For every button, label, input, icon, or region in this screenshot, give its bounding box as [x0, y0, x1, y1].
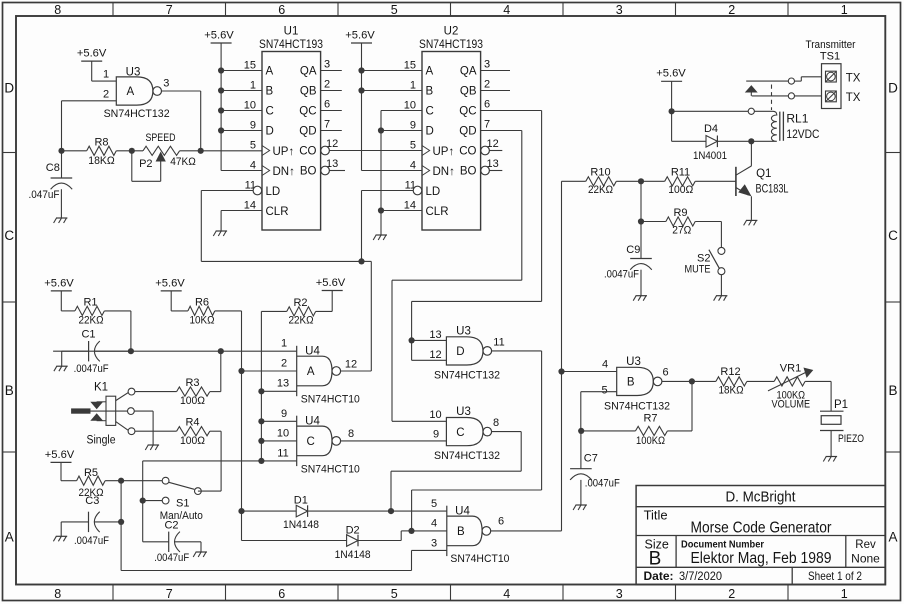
resistor R11 [665, 177, 696, 186]
svg-text:5: 5 [431, 498, 437, 510]
svg-text:15: 15 [404, 60, 416, 72]
svg-text:P2: P2 [139, 158, 152, 170]
svg-text:U4: U4 [305, 346, 320, 358]
svg-text:C8: C8 [46, 162, 60, 174]
svg-text:+5.6V: +5.6V [155, 277, 185, 289]
svg-text:CO: CO [299, 146, 316, 158]
resistor R1 [60, 291, 62, 311]
svg-text:10KΩ: 10KΩ [190, 315, 215, 327]
svg-text:7: 7 [166, 587, 173, 601]
svg-text:A: A [266, 66, 274, 78]
svg-text:VR1: VR1 [780, 363, 801, 375]
wire U3B output [662, 380, 716, 382]
svg-text:8: 8 [54, 587, 61, 601]
svg-text:TS1: TS1 [820, 51, 840, 63]
ground P1 [826, 456, 837, 458]
node dot relay common [669, 108, 675, 114]
svg-text:U3: U3 [626, 356, 641, 368]
svg-text:.0047uF: .0047uF [604, 269, 639, 281]
svg-text:4: 4 [503, 587, 510, 601]
svg-text:1N4148: 1N4148 [283, 519, 319, 531]
svg-text:R8: R8 [94, 137, 108, 149]
svg-text:C1: C1 [81, 328, 95, 340]
nand gate U3 C [446, 418, 483, 446]
U1 output stubs QA-QD [321, 70, 342, 72]
svg-text:4: 4 [250, 160, 256, 172]
svg-text:B: B [649, 549, 662, 570]
wire C3 node to U4B pin3 (bottom route) [120, 522, 122, 571]
wire output pin3 U3A [162, 90, 201, 92]
svg-text:12VDC: 12VDC [786, 127, 819, 141]
svg-text:R5: R5 [84, 467, 98, 479]
svg-text:DN↑: DN↑ [433, 166, 455, 178]
svg-text:+5.6V: +5.6V [204, 29, 234, 41]
svg-text:SN74HCT132: SN74HCT132 [434, 370, 500, 382]
wire R10 node down to R9/C9 [640, 181, 642, 258]
U2 clock wedges [422, 146, 430, 156]
svg-text:6: 6 [278, 3, 285, 17]
svg-text:Elektor Mag, Feb 1989: Elektor Mag, Feb 1989 [691, 550, 832, 567]
svg-text:R3: R3 [185, 377, 199, 389]
svg-text:U3: U3 [456, 326, 471, 338]
svg-text:LD: LD [426, 186, 441, 198]
svg-text:9: 9 [250, 120, 256, 132]
svg-text:R12: R12 [720, 366, 740, 378]
wire U3C pin10 from QD [392, 420, 446, 422]
svg-text:27Ω: 27Ω [672, 225, 691, 237]
U1 CO bubble, wire to U2 UP [321, 146, 330, 155]
svg-text:1: 1 [281, 338, 287, 350]
svg-text:None: None [851, 552, 880, 566]
node dot R9 tap [638, 218, 644, 224]
svg-text:2: 2 [728, 587, 735, 601]
wire U3D inputs tie [412, 339, 447, 341]
wire relay common row [672, 110, 749, 112]
capacitor C9 [630, 258, 652, 260]
svg-text:S1: S1 [176, 498, 189, 510]
svg-text:B: B [266, 86, 274, 98]
svg-text:D: D [888, 81, 898, 96]
node dot P2 right / U1 UP [198, 148, 204, 154]
wire pin2 U3A [62, 100, 117, 102]
svg-text:4: 4 [602, 359, 608, 371]
wire U2 QD to U3C pin10 [481, 130, 522, 132]
resistor R10 [562, 180, 586, 182]
svg-text:.0047uF: .0047uF [154, 552, 189, 564]
svg-text:+5.6V: +5.6V [45, 449, 75, 461]
svg-text:1: 1 [410, 80, 416, 92]
svg-text:4: 4 [410, 160, 416, 172]
svg-text:7: 7 [166, 3, 173, 17]
svg-text:9: 9 [433, 429, 439, 441]
svg-text:C7: C7 [584, 453, 598, 465]
svg-text:1: 1 [103, 69, 109, 81]
nand gate U4 C [296, 416, 298, 466]
svg-text:C3: C3 [85, 495, 99, 507]
svg-text:22KΩ: 22KΩ [289, 315, 314, 327]
IC U2 SN74HCT193 box [422, 52, 481, 231]
svg-text:C: C [456, 427, 464, 439]
svg-text:D4: D4 [704, 123, 718, 135]
resistor R8 [62, 150, 87, 152]
svg-text:K1: K1 [94, 382, 108, 394]
svg-text:.047uF: .047uF [29, 189, 60, 201]
svg-text:U2: U2 [444, 26, 459, 38]
svg-text:Document Number: Document Number [681, 538, 764, 550]
svg-text:U4: U4 [305, 416, 320, 428]
node dot D1/U3C out [388, 508, 394, 514]
svg-text:4: 4 [431, 518, 437, 530]
node dot U3B out [689, 378, 695, 384]
switch S1 Man/Auto [162, 477, 169, 484]
svg-text:12: 12 [429, 349, 441, 361]
wire R6 bus down to D1/D2 [241, 311, 243, 541]
wire LD tie row to U4A output [201, 260, 361, 262]
svg-text:11: 11 [277, 448, 288, 460]
svg-text:100Ω: 100Ω [180, 435, 205, 447]
svg-text:D: D [456, 346, 464, 358]
svg-text:6: 6 [498, 516, 504, 528]
svg-text:RL1: RL1 [786, 112, 808, 126]
U1 supply rail and input stubs [220, 43, 222, 171]
capacitor C8 [58, 148, 64, 154]
node dot R7/C7 [578, 428, 584, 434]
relay contact throw 2 [752, 95, 789, 97]
svg-text:SN74HCT10: SN74HCT10 [450, 553, 509, 565]
wire U4C pin10 [261, 440, 296, 442]
svg-text:CLR: CLR [426, 206, 449, 218]
svg-text:3: 3 [616, 3, 623, 17]
svg-text:CLR: CLR [266, 206, 289, 218]
ground C1 [56, 365, 67, 367]
svg-text:6: 6 [324, 98, 330, 110]
svg-text:7: 7 [484, 118, 490, 130]
svg-text:18KΩ: 18KΩ [88, 155, 115, 167]
wire U4C output to U3C pin9 [341, 440, 447, 442]
svg-text:CO: CO [459, 146, 476, 158]
svg-text:R9: R9 [673, 207, 687, 219]
svg-text:5: 5 [410, 140, 416, 152]
wire node row to U4A pin1 [53, 350, 297, 352]
svg-text:UP↑: UP↑ [273, 146, 295, 158]
svg-text:U3: U3 [456, 406, 471, 418]
svg-text:14: 14 [404, 200, 416, 212]
svg-text:2: 2 [324, 78, 330, 90]
U2 supply rail, A B stubs, DN [361, 43, 363, 171]
svg-text:Q1: Q1 [756, 168, 771, 180]
svg-text:47KΩ: 47KΩ [170, 156, 196, 168]
node dot D1 anode [238, 508, 244, 514]
svg-text:Rev: Rev [855, 539, 876, 551]
svg-text:Morse Code Generator: Morse Code Generator [691, 520, 832, 537]
svg-text:BO: BO [300, 166, 317, 178]
resistor R6 [170, 291, 172, 311]
svg-text:B: B [627, 377, 635, 389]
resistor R3 [135, 391, 177, 393]
ground C7 [576, 504, 587, 506]
ground C8 [56, 217, 67, 219]
svg-text:PIEZO: PIEZO [838, 433, 864, 445]
node dot P2 left [129, 148, 135, 154]
svg-text:D2: D2 [346, 525, 360, 537]
wire U3C output to D1 node [492, 431, 522, 433]
svg-text:100Ω: 100Ω [668, 184, 693, 196]
diode D1 1N4148 [242, 510, 297, 512]
svg-text:1: 1 [841, 587, 848, 601]
svg-text:11: 11 [493, 336, 504, 348]
svg-text:2: 2 [484, 78, 490, 90]
svg-text:7: 7 [324, 118, 330, 130]
svg-text:SN74HCT132: SN74HCT132 [604, 401, 670, 413]
svg-text:A: A [426, 66, 434, 78]
svg-text:QD: QD [299, 126, 316, 138]
wire U4A output [341, 370, 372, 372]
svg-text:5: 5 [601, 385, 607, 397]
svg-text:SPEED: SPEED [146, 132, 176, 144]
svg-text:9: 9 [410, 120, 416, 132]
piezo P1 [830, 381, 832, 411]
U2 C D CLR tie to ground [381, 110, 422, 112]
svg-text:1: 1 [250, 80, 256, 92]
svg-text:U3: U3 [126, 67, 141, 79]
svg-text:R2: R2 [293, 297, 307, 309]
svg-text:18KΩ: 18KΩ [719, 385, 744, 397]
svg-text:3: 3 [163, 78, 169, 90]
svg-text:QB: QB [300, 86, 317, 98]
svg-text:UP↑: UP↑ [433, 146, 455, 158]
svg-text:5: 5 [391, 587, 398, 601]
svg-text:8: 8 [54, 3, 61, 17]
svg-text:D: D [266, 126, 274, 138]
svg-text:C: C [266, 106, 274, 118]
svg-text:U1: U1 [284, 26, 299, 38]
node dot U3B pin4 [558, 368, 564, 374]
svg-text:14: 14 [244, 200, 256, 212]
svg-text:SN74HCT132: SN74HCT132 [104, 108, 170, 120]
svg-text:3: 3 [324, 58, 330, 70]
wire U4A pin2 [242, 370, 297, 372]
svg-text:A: A [888, 530, 897, 545]
svg-text:22KΩ: 22KΩ [79, 315, 104, 327]
node dot R5/C3 [118, 478, 124, 484]
svg-text:6: 6 [662, 367, 668, 379]
svg-text:.0047uF: .0047uF [585, 478, 620, 490]
svg-text:R7: R7 [643, 413, 657, 425]
svg-text:C: C [4, 228, 14, 243]
node dot D4/coil/collector [748, 138, 754, 144]
resistor R5 [60, 462, 62, 480]
svg-text:A: A [307, 366, 315, 378]
svg-text:TX: TX [846, 72, 861, 84]
resistor R4 [135, 430, 177, 432]
potentiometer VR1 VOLUME [774, 377, 805, 386]
svg-text:QA: QA [460, 66, 477, 78]
switch S2 MUTE [720, 222, 722, 248]
svg-text:12: 12 [345, 359, 357, 371]
svg-text:.0047uF: .0047uF [74, 535, 109, 547]
svg-text:D1: D1 [294, 495, 308, 507]
svg-text:9: 9 [281, 408, 287, 420]
svg-text:R1: R1 [83, 297, 97, 309]
svg-text:5: 5 [250, 140, 256, 152]
svg-text:2: 2 [728, 3, 735, 17]
wire R2 bus down [260, 311, 262, 461]
svg-text:SN74HCT10: SN74HCT10 [301, 394, 360, 406]
U2 LD bubble and wire [413, 186, 422, 195]
nand gate U3 A [116, 77, 153, 105]
ground C2 [196, 551, 207, 553]
wire U4C pin9 [261, 420, 296, 422]
svg-text:C: C [307, 436, 315, 448]
nand gate U4 A [296, 346, 298, 396]
svg-text:B: B [888, 383, 897, 398]
svg-text:LD: LD [266, 186, 281, 198]
resistor R12 [716, 377, 747, 386]
svg-text:VOLUME: VOLUME [772, 399, 811, 411]
wire U4B pin5 [391, 510, 447, 512]
relay contact throw 1 [746, 80, 788, 82]
svg-text:SN74HCT10: SN74HCT10 [301, 464, 360, 476]
svg-text:13: 13 [429, 329, 441, 341]
wire U4A pin13 [261, 390, 296, 392]
node dot pin11 row / R2 bus [258, 458, 264, 464]
node dot R3 top [218, 348, 224, 354]
ground C3 [56, 535, 67, 537]
frame row ticks and labels [3, 152, 17, 154]
node dot R10/R11 [638, 178, 644, 184]
relay armature arrow [746, 86, 757, 92]
relay pole circle [748, 108, 754, 114]
svg-text:B: B [426, 86, 434, 98]
IC U1 SN74HCT193 box [262, 52, 321, 231]
svg-text:+5.6V: +5.6V [656, 68, 686, 80]
svg-text:QC: QC [299, 106, 316, 118]
diode D4 1N4001 [672, 140, 706, 142]
svg-text:3/7/2020: 3/7/2020 [679, 569, 722, 583]
svg-text:8: 8 [493, 417, 499, 429]
node dot U4B pin4 [408, 528, 414, 534]
wire U3D output to U4B pin4 [492, 350, 542, 352]
svg-text:Transmitter: Transmitter [806, 39, 856, 51]
svg-text:10: 10 [429, 409, 441, 421]
svg-text:QD: QD [459, 126, 476, 138]
svg-text:1: 1 [841, 3, 848, 17]
node dot S1 lower throw / C2 [140, 498, 146, 504]
potentiometer P2 SPEED [143, 146, 180, 155]
svg-text:BC183L: BC183L [756, 184, 789, 196]
svg-text:SN74HCT193: SN74HCT193 [419, 39, 483, 51]
svg-text:R4: R4 [185, 417, 199, 429]
svg-text:3: 3 [484, 58, 490, 70]
U1 CLR wire and ground [221, 210, 262, 212]
svg-text:QC: QC [459, 106, 476, 118]
resistor R7 [691, 381, 693, 431]
svg-text:2: 2 [103, 88, 109, 100]
U2 output stubs QA QB [481, 70, 510, 72]
capacitor C7 [580, 431, 582, 469]
svg-text:D: D [426, 126, 434, 138]
svg-text:A: A [5, 530, 14, 545]
svg-text:8: 8 [348, 428, 354, 440]
svg-text:1N4001: 1N4001 [693, 150, 727, 162]
wire pin1 U3A [91, 61, 93, 81]
svg-text:10: 10 [404, 100, 416, 112]
resistor R9 [641, 221, 666, 223]
svg-text:C: C [888, 228, 898, 243]
nand gate U3 D [446, 337, 483, 365]
svg-text:+5.6V: +5.6V [77, 48, 107, 60]
svg-text:P1: P1 [834, 399, 848, 411]
svg-text:6: 6 [278, 587, 285, 601]
svg-text:C2: C2 [164, 520, 178, 532]
svg-text:R6: R6 [195, 297, 209, 309]
transistor Q1 BC183L [735, 167, 737, 196]
relay actuation dashed link [771, 85, 773, 111]
svg-text:3: 3 [616, 587, 623, 601]
wire U2 QC to U3D inputs [481, 110, 542, 112]
wire pin11 row [143, 460, 297, 462]
svg-text:Single: Single [87, 435, 116, 447]
nand gate U4 B [446, 506, 448, 556]
svg-text:+5.6V: +5.6V [44, 277, 74, 289]
svg-text:D: D [4, 81, 14, 96]
svg-text:15: 15 [244, 60, 256, 72]
svg-text:3: 3 [431, 538, 437, 550]
svg-text:MUTE: MUTE [685, 263, 711, 275]
svg-text:+5.6V: +5.6V [345, 29, 375, 41]
svg-text:100Ω: 100Ω [180, 395, 205, 407]
node dot C1/R1 [128, 348, 134, 354]
ground S2 [716, 295, 727, 297]
svg-text:A: A [126, 86, 134, 98]
wire U3B pin5 [581, 391, 617, 393]
svg-text:QA: QA [300, 66, 317, 78]
svg-text:4: 4 [503, 3, 510, 17]
U1 clock wedges [262, 146, 270, 156]
wire +5.6 down to D4 [671, 81, 673, 141]
svg-text:SN74HCT193: SN74HCT193 [259, 39, 323, 51]
svg-text:5: 5 [391, 3, 398, 17]
ground U2 [376, 234, 387, 236]
svg-text:U4: U4 [455, 506, 470, 518]
wire K1 middle to ground [134, 410, 153, 412]
wire U4B output up to R10 [491, 530, 562, 532]
frame column ticks and labels [112, 3, 114, 17]
svg-text:2: 2 [281, 357, 287, 369]
svg-text:Title: Title [644, 508, 668, 523]
wire C2 branch vertical [142, 461, 144, 542]
svg-text:.0047uF: .0047uF [74, 363, 109, 375]
svg-text:BO: BO [460, 166, 477, 178]
nand gate U3 B [617, 367, 654, 395]
svg-text:13: 13 [277, 377, 289, 389]
wire U3B pin4 [562, 371, 617, 373]
relay core bars [779, 112, 781, 141]
svg-text:6: 6 [484, 98, 490, 110]
svg-text:C: C [426, 106, 434, 118]
svg-text:100KΩ: 100KΩ [636, 435, 665, 447]
svg-text:+5.6V: +5.6V [316, 277, 346, 289]
U2 BO bubble stub [481, 166, 490, 175]
ground Q1 [746, 219, 757, 221]
svg-text:QB: QB [460, 86, 477, 98]
svg-text:TX: TX [846, 92, 861, 104]
title block [636, 486, 885, 585]
svg-text:B: B [457, 526, 465, 538]
ground C9 [636, 295, 647, 297]
svg-text:1N4148: 1N4148 [335, 549, 371, 561]
svg-text:22KΩ: 22KΩ [588, 184, 613, 196]
